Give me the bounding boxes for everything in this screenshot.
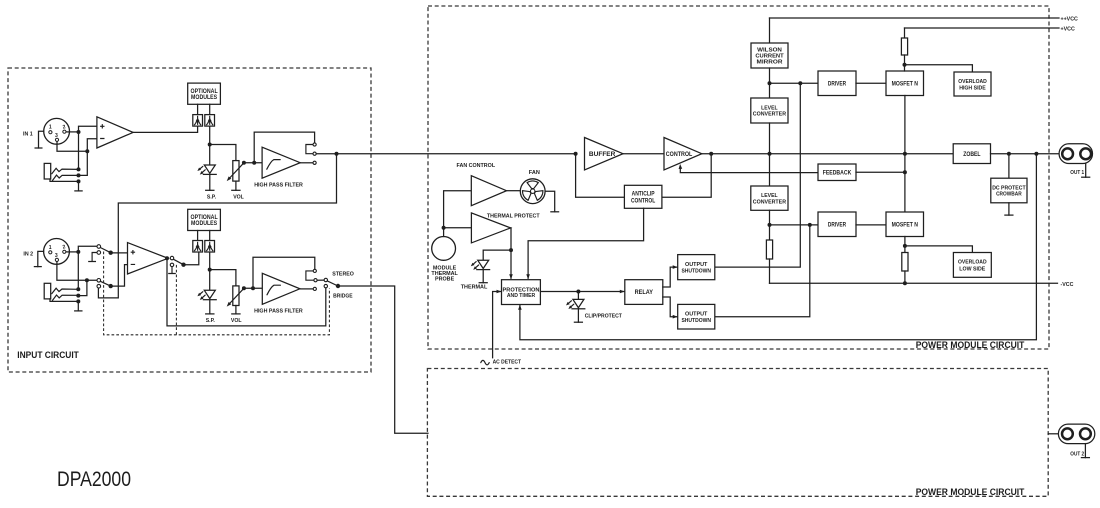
connector IN2 jack (44, 283, 78, 300)
power module circuit dashed enclosure (top) (428, 6, 1049, 349)
amp HIGH PASS FILTER ch2 (262, 273, 300, 304)
svg-text:CONTROL: CONTROL (631, 198, 655, 204)
ground (OUT1) (1085, 164, 1087, 178)
ground (VOL ch2) (235, 306, 237, 314)
svg-text:THERMAL: THERMAL (461, 285, 488, 291)
dashed gang linkage (stereo/bridge switches) (104, 252, 330, 335)
svg-text:OVERLOAD: OVERLOAD (958, 260, 987, 266)
svg-text:1: 1 (49, 125, 52, 131)
svg-text:FAN CONTROL: FAN CONTROL (457, 163, 496, 169)
wire bridge feed (ch1 out to ch2 inverting switch) (98, 154, 336, 298)
block LEVEL CONVERTER 1 (751, 98, 788, 123)
wire output sense to protection (arrow) (520, 154, 1037, 340)
wire LC2 to driver2 (769, 210, 771, 240)
svg-text:VOL: VOL (231, 318, 242, 324)
wire pin2 to node (66, 131, 78, 133)
resistor R3 (902, 253, 908, 272)
wire tap to thermal LED (483, 250, 511, 260)
svg-text:DRIVER: DRIVER (828, 222, 847, 228)
ground (clip LED) (577, 309, 579, 322)
svg-text:CONVERTER: CONVERTER (753, 112, 787, 118)
op-amp U2 (IN2 buffer) (128, 243, 169, 274)
wire feedback to output rail (856, 171, 905, 173)
svg-text:IN 2: IN 2 (23, 251, 33, 257)
switch S2 lever and pole (100, 281, 110, 286)
ground (thermal LED) (482, 270, 484, 283)
svg-text:CONVERTER: CONVERTER (753, 199, 787, 205)
node jack2 tip terminal (76, 287, 80, 291)
block DC PROTECT CROWBAR (991, 178, 1027, 203)
connector IN1 jack (44, 163, 78, 180)
wire tap to clip LED (577, 292, 579, 300)
block LEVEL CONVERTER 2 (751, 186, 788, 210)
svg-text:DRIVER: DRIVER (828, 81, 847, 87)
connector OUT 2 (1058, 424, 1094, 444)
wire S2 pole to op-amp - (111, 265, 128, 287)
wire sense to overload low side (905, 246, 973, 253)
svg-text:POWER MODULE CIRCUIT: POWER MODULE CIRCUIT (916, 340, 1025, 350)
svg-text:ANTICLIP: ANTICLIP (632, 192, 655, 198)
svg-text:++VCC: ++VCC (1061, 17, 1079, 23)
svg-text:FAN: FAN (529, 170, 540, 176)
amp THERMAL PROTECT (471, 213, 510, 243)
svg-text:LOW SIDE: LOW SIDE (959, 266, 985, 272)
ground (crowbar) (1008, 203, 1010, 215)
block OPTIONAL MODULES (ch1) (188, 83, 221, 104)
wire pin3 cold (57, 262, 97, 281)
connector module slot 1 (ch1) (193, 115, 203, 127)
wire LC1 to output rail (769, 123, 771, 154)
svg-text:OUT 2: OUT 2 (1070, 452, 1084, 458)
svg-text:CLIP/PROTECT: CLIP/PROTECT (585, 313, 623, 319)
ground (jack2 sleeve) (77, 301, 79, 311)
svg-text:LEVEL: LEVEL (761, 105, 778, 111)
node anticlip return (709, 152, 713, 156)
connector module slot 1 (ch2) (193, 241, 203, 253)
supply rail +VCC (905, 27, 1060, 29)
wire output shutdown2 rail (715, 225, 810, 317)
svg-text:HIGH SIDE: HIGH SIDE (959, 85, 986, 91)
block OUTPUT SHUTDOWN 2 (678, 304, 715, 329)
svg-text:HIGH PASS FILTER: HIGH PASS FILTER (254, 309, 303, 315)
wire HPF2 bypass loop (253, 257, 315, 288)
block OVERLOAD HIGH SIDE (954, 72, 991, 96)
wire node to op-amp + (79, 126, 97, 132)
switch HPF1 contact bottom (313, 161, 316, 164)
node buffer input tap (574, 152, 578, 156)
wire cold node to jack2 ring (78, 280, 87, 295)
node U2 output (165, 256, 169, 260)
wire slot2 to signal node (209, 126, 211, 144)
wire HPF2 selected output to stereo throw (317, 279, 324, 281)
amp FAN CONTROL (471, 176, 506, 206)
amp CONTROL (664, 138, 702, 170)
symbol AC sine (481, 360, 489, 364)
node jack2 sleeve terminal (76, 299, 80, 303)
wire module box to slot2 (209, 104, 211, 114)
wire pot2 wiper to HPF2 input (244, 287, 262, 289)
svg-text:SHUTDOWN: SHUTDOWN (681, 269, 711, 275)
node HPF2 input (242, 286, 246, 290)
svg-text:MOSFET N: MOSFET N (892, 81, 918, 87)
potentiometer VOL ch1 (233, 161, 239, 182)
svg-text:OUTPUT: OUTPUT (685, 262, 708, 268)
svg-text:OUTPUT: OUTPUT (685, 311, 708, 317)
block ZOBEL (953, 144, 990, 164)
switch HPF1 contact top (313, 143, 316, 146)
switch M1 mute contact top (170, 256, 174, 260)
node output sense tap (1034, 152, 1038, 156)
wire jack sleeve (50, 179, 79, 181)
node jack1 ring terminal (77, 173, 81, 177)
wire op-amp minus to cold node (87, 139, 97, 151)
svg-text:3: 3 (55, 133, 58, 139)
switch HPF2 contact top (313, 269, 316, 272)
amp HIGH PASS FILTER ch1 (262, 147, 300, 178)
wire driver2 to mosfet2 (856, 224, 886, 226)
wire M1 pole to module slot1 (ch2) (184, 252, 199, 265)
svg-text:VOL: VOL (233, 194, 244, 200)
LED CLIP/PROTECT (566, 299, 585, 309)
node R3 to -VCC (903, 281, 907, 285)
wire hot to switch S1 top throw (78, 246, 97, 252)
wire node to VOL2 pot (210, 270, 236, 286)
wire control output rail (702, 153, 953, 155)
svg-text:S.P.: S.P. (207, 194, 217, 200)
svg-text:3: 3 (55, 253, 58, 259)
wire buffer to control (623, 153, 664, 155)
node driver2 input (768, 223, 772, 227)
switch HPF2 contact bottom (313, 287, 316, 290)
node driver1 input (768, 81, 772, 85)
svg-text:ZOBEL: ZOBEL (963, 152, 981, 158)
wire HPF1 bypass loop (254, 132, 314, 163)
block MOSFET N (low side) (886, 212, 924, 237)
svg-text:CONTROL: CONTROL (666, 151, 693, 158)
switch ST/BR lever and pole (327, 281, 338, 286)
wire output shutdown1 rail (715, 83, 801, 267)
connector IN1 XLR (23, 118, 70, 144)
node HPF1 bypass tap (252, 161, 256, 165)
node ch2 signal (208, 268, 212, 272)
node jack1 tip terminal (77, 167, 81, 171)
connector module slot 2 (ch1) (205, 115, 215, 127)
wire hot node to jack2 tip (77, 252, 79, 289)
wire tap to anticlip (576, 154, 625, 198)
LED S.P. (ch1 signal present) (209, 145, 211, 166)
svg-text:HIGH PASS FILTER: HIGH PASS FILTER (254, 183, 303, 189)
node clip LED tap (576, 290, 580, 294)
wire rail to mosfet2 (904, 154, 906, 212)
svg-text:FEEDBACK: FEEDBACK (823, 170, 852, 176)
block PROTECTION AND TIMER (502, 280, 541, 305)
node probe tee (442, 226, 446, 230)
block MOSFET N (high side) (886, 71, 924, 96)
switch S2 (IN2 - input select): throws (97, 279, 101, 283)
wire sense to overload high side (905, 65, 973, 72)
ground (VOL ch1) (235, 181, 237, 190)
resistor R1 (901, 38, 907, 55)
svg-text:SHUTDOWN: SHUTDOWN (681, 318, 711, 324)
switch HPF1 contact mid (313, 152, 316, 155)
block RELAY (625, 280, 663, 305)
node feedback tap (903, 170, 907, 174)
supply rail -VCC (770, 282, 1058, 284)
wire HPF1 output to switch (300, 162, 313, 164)
node mosfet2 source sense (903, 244, 907, 248)
wire U2 output down to bridge path (167, 258, 326, 326)
svg-text:AND TIMER: AND TIMER (507, 293, 536, 299)
switch S1 lever and pole (100, 248, 110, 253)
node ch1 signal (208, 143, 212, 147)
wire probe to fan control (444, 191, 472, 237)
wire ch1 output line to power module (316, 153, 575, 155)
svg-text:INPUT CIRCUIT: INPUT CIRCUIT (17, 350, 79, 360)
block OPTIONAL MODULES (ch2) (188, 209, 221, 230)
switch BRIDGE throw contact (324, 284, 327, 287)
node output rail / LC tap (768, 152, 772, 156)
node IN2 cold branch (85, 278, 89, 282)
node jack1 sleeve terminal (77, 179, 81, 183)
LED S.P. (ch2) (209, 270, 211, 291)
node IN1 cold (85, 149, 89, 153)
amp BUFFER (585, 138, 624, 170)
ground (IN1 XLR shell) (39, 131, 44, 148)
node IN2 hot (76, 250, 80, 254)
svg-text:PROBE: PROBE (435, 277, 455, 283)
wire probe to thermal protect (444, 227, 472, 229)
svg-text:IN 1: IN 1 (23, 131, 33, 137)
block OVERLOAD LOW SIDE (953, 253, 991, 278)
node IN1 hot (77, 130, 81, 134)
svg-text:MODULES: MODULES (191, 95, 217, 101)
op-amp U1 (IN1 buffer) (97, 117, 133, 148)
wire module2 to OUT2 (1048, 433, 1058, 435)
svg-text:BRIDGE: BRIDGE (333, 293, 353, 299)
power module circuit dashed enclosure (bottom) (427, 369, 1048, 497)
wire R2 to -VCC rail (769, 259, 771, 283)
wire node to VOL pot (210, 145, 236, 161)
switch M1 mute contact bottom + ground (170, 263, 174, 267)
LED THERMAL (471, 260, 490, 270)
wire module box to slot1 (197, 104, 199, 114)
wire thermal protect to protection (510, 228, 512, 278)
resistor R2 (bias) (766, 240, 772, 259)
svg-text:MIRROR: MIRROR (757, 60, 784, 66)
wire tap to crowbar (1008, 154, 1010, 179)
wire slot2 to ch2 signal node (209, 252, 211, 270)
svg-text:DPA2000: DPA2000 (57, 467, 131, 491)
node shutdown2 rail top (808, 223, 812, 227)
wire HPF2 output to switch (300, 288, 313, 290)
svg-text:+VCC: +VCC (1061, 27, 1075, 33)
svg-text:LEVEL: LEVEL (761, 193, 778, 199)
block ANTICLIP CONTROL (624, 185, 662, 208)
wire AC detect into protection (arrow) (493, 292, 501, 358)
wire protection to relay (arrow) (540, 291, 623, 293)
svg-text:RELAY: RELAY (635, 290, 653, 296)
node output junction (903, 152, 907, 156)
node mosfet1 source sense (903, 63, 907, 67)
node thermal LED tap (509, 248, 513, 252)
wire S1 pole to op-amp + (111, 252, 128, 254)
ground (IN2 XLR shell) (38, 251, 44, 266)
svg-text:-VCC: -VCC (1061, 282, 1074, 288)
wire node to driver1 (770, 82, 819, 84)
switch HPF1 bypass: bracket (306, 145, 313, 154)
svg-text:OUT 1: OUT 1 (1070, 170, 1084, 176)
supply rail ++VCC (770, 17, 1060, 19)
ground (fan) (545, 191, 555, 212)
svg-text:THERMAL PROTECT: THERMAL PROTECT (487, 214, 540, 220)
wire anticlip to node (662, 154, 711, 198)
wire op-amp U1 output to optional module 1 (133, 126, 198, 132)
svg-text:AC DETECT: AC DETECT (493, 360, 522, 366)
ground (OUT2) (1084, 444, 1086, 458)
wire +VCC through R1 to mosfet1 (904, 28, 906, 38)
wire anticlip to protection (528, 208, 644, 278)
wire cold node to jack ring (79, 151, 88, 175)
wire hot node to jack tip (78, 132, 80, 169)
wire pin3 cold (57, 142, 87, 152)
connector IN2 XLR (23, 239, 69, 265)
block FEEDBACK (818, 164, 856, 181)
block DRIVER (high side) (818, 71, 856, 96)
node jack2 ring terminal (76, 294, 80, 298)
node HPF2 bypass tap (251, 286, 255, 290)
wire pot wiper to HPF input (244, 162, 262, 164)
block DRIVER (low side) (818, 212, 856, 237)
svg-text:S.P.: S.P. (206, 318, 216, 324)
svg-text:CROWBAR: CROWBAR (996, 192, 1022, 198)
switch STEREO throw contact (324, 278, 327, 281)
switch S1 (IN2 + input select): throws (97, 245, 101, 249)
node ch1 out / bridge tap (335, 152, 339, 156)
ground (S.P. ch2) (209, 300, 211, 314)
ground (jack1 sleeve) (78, 181, 80, 191)
wire driver1 to mosfet1 (856, 82, 886, 84)
wire relay to shutdown1 (arrow) (663, 267, 677, 287)
wire wilson to ++VCC (769, 18, 771, 43)
wire relay to shutdown2 (arrow) (663, 297, 677, 317)
wire wilson to node (769, 68, 771, 98)
svg-text:MOSFET N: MOSFET N (892, 222, 918, 228)
probe MODULE THERMAL PROBE (432, 237, 456, 261)
fan symbol FAN (520, 179, 545, 204)
wire module box2 to slots (197, 231, 199, 241)
svg-text:POWER MODULE CIRCUIT: POWER MODULE CIRCUIT (916, 487, 1025, 497)
switch HPF2 bypass: bracket (306, 271, 314, 280)
wire mosfet1 to output rail (904, 96, 906, 154)
wire mosfet2 to -VCC via R3 (904, 237, 906, 253)
node crowbar tap (1007, 152, 1011, 156)
ground (S.P. ch1) (209, 174, 211, 190)
svg-text:1: 1 (49, 245, 52, 251)
wire rail to LC2 (769, 154, 771, 186)
node shutdown1 rail top (798, 81, 802, 85)
input circuit dashed enclosure (8, 68, 371, 372)
connector module slot 2 (ch2) (205, 241, 215, 253)
wire jack2 sleeve (50, 299, 78, 302)
switch HPF2 contact mid (314, 279, 317, 282)
node HPF1 input (242, 161, 246, 165)
switch M1 lever and pole (174, 259, 184, 264)
wire pin2 to node (66, 251, 78, 253)
wire zobel to OUT1 (991, 153, 1060, 155)
potentiometer VOL ch2 (233, 286, 239, 306)
connector OUT 1 (1059, 144, 1092, 164)
ground (S1 mute throw) (92, 253, 97, 262)
wire feedback to control (arrow) (680, 167, 818, 173)
wire fan control to fan (507, 190, 521, 192)
svg-text:STEREO: STEREO (332, 272, 354, 278)
wire ch2/bridged output to lower power module (338, 286, 428, 433)
block WILSON CURRENT MIRROR (751, 43, 788, 68)
svg-text:OVERLOAD: OVERLOAD (958, 79, 987, 85)
svg-text:BUFFER: BUFFER (589, 151, 616, 158)
block OUTPUT SHUTDOWN 1 (678, 255, 715, 280)
svg-text:MODULES: MODULES (191, 221, 217, 227)
